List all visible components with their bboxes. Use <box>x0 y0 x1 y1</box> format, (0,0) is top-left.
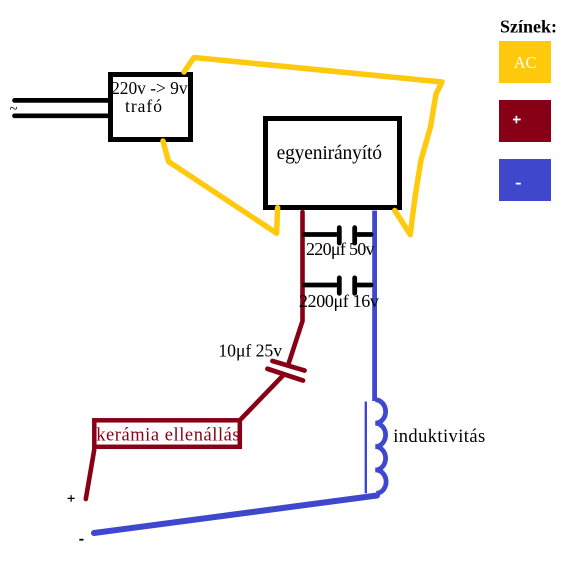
svg-text:AC: AC <box>514 53 537 72</box>
svg-text:Színek:: Színek: <box>500 16 557 36</box>
svg-text:2200μf 16v: 2200μf 16v <box>299 291 379 311</box>
svg-text:trafó: trafó <box>125 96 163 116</box>
svg-text:10μf 25v: 10μf 25v <box>218 341 282 361</box>
svg-text:220v -> 9v: 220v -> 9v <box>111 78 188 98</box>
svg-text:220μf 50v: 220μf 50v <box>306 239 375 259</box>
svg-text:induktivitás: induktivitás <box>393 427 485 447</box>
svg-text:kerámia ellenállás: kerámia ellenállás <box>96 425 240 445</box>
svg-text:~: ~ <box>10 101 18 117</box>
svg-text:egyenirányító: egyenirányító <box>277 143 382 164</box>
